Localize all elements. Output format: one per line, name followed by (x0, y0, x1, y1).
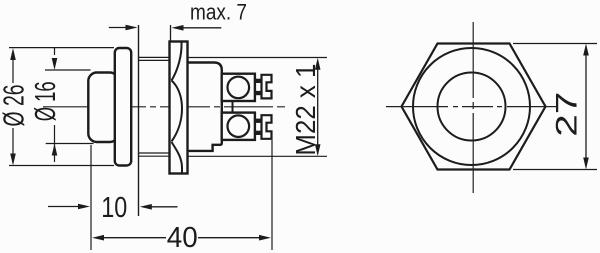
button circle (438, 73, 506, 141)
svg-text:Ø 16: Ø 16 (30, 81, 62, 121)
switch body (187, 63, 222, 151)
thread root line top (139, 59, 170, 61)
svg-text:max. 7: max. 7 (190, 0, 247, 25)
inner post between terminals (232, 101, 234, 113)
screw head 2 (228, 115, 250, 137)
thread root line bottom (139, 152, 170, 154)
clamp bracket 1 (262, 75, 272, 99)
dimension max. 7 (109, 0, 247, 42)
thread crest line bottom (139, 155, 328, 157)
centerline left view (43, 106, 285, 108)
clamp bracket 2 (262, 115, 272, 139)
clamp bars 2 (255, 119, 262, 123)
terminal block 1 (222, 74, 255, 101)
dimension 40 (92, 140, 272, 253)
horizontal centerline hex view (386, 106, 558, 108)
chamfer circle (413, 48, 530, 165)
svg-text:Ø 26: Ø 26 (0, 85, 31, 127)
dimension 10 (48, 145, 178, 250)
svg-text:27: 27 (551, 92, 584, 137)
thread crest line top (139, 56, 328, 58)
hex nut side view (170, 42, 188, 174)
flange (115, 48, 131, 166)
terminal block 2 (222, 113, 255, 140)
screw head 1 (228, 77, 250, 99)
dimension M22 x 1 (290, 58, 321, 157)
mounting panel line (138, 25, 140, 216)
dimension Ø 26 (0, 48, 114, 166)
svg-text:10: 10 (101, 192, 127, 224)
vertical centerline hex view (472, 22, 474, 193)
svg-text:40: 40 (167, 222, 198, 253)
dimension 27 (513, 44, 597, 170)
push-button cap (88, 73, 118, 143)
svg-text:M22 x 1: M22 x 1 (290, 64, 321, 156)
dimension Ø 16 (30, 48, 94, 162)
clamp bars 1 (255, 79, 262, 83)
hexagon nut front view (402, 44, 546, 170)
